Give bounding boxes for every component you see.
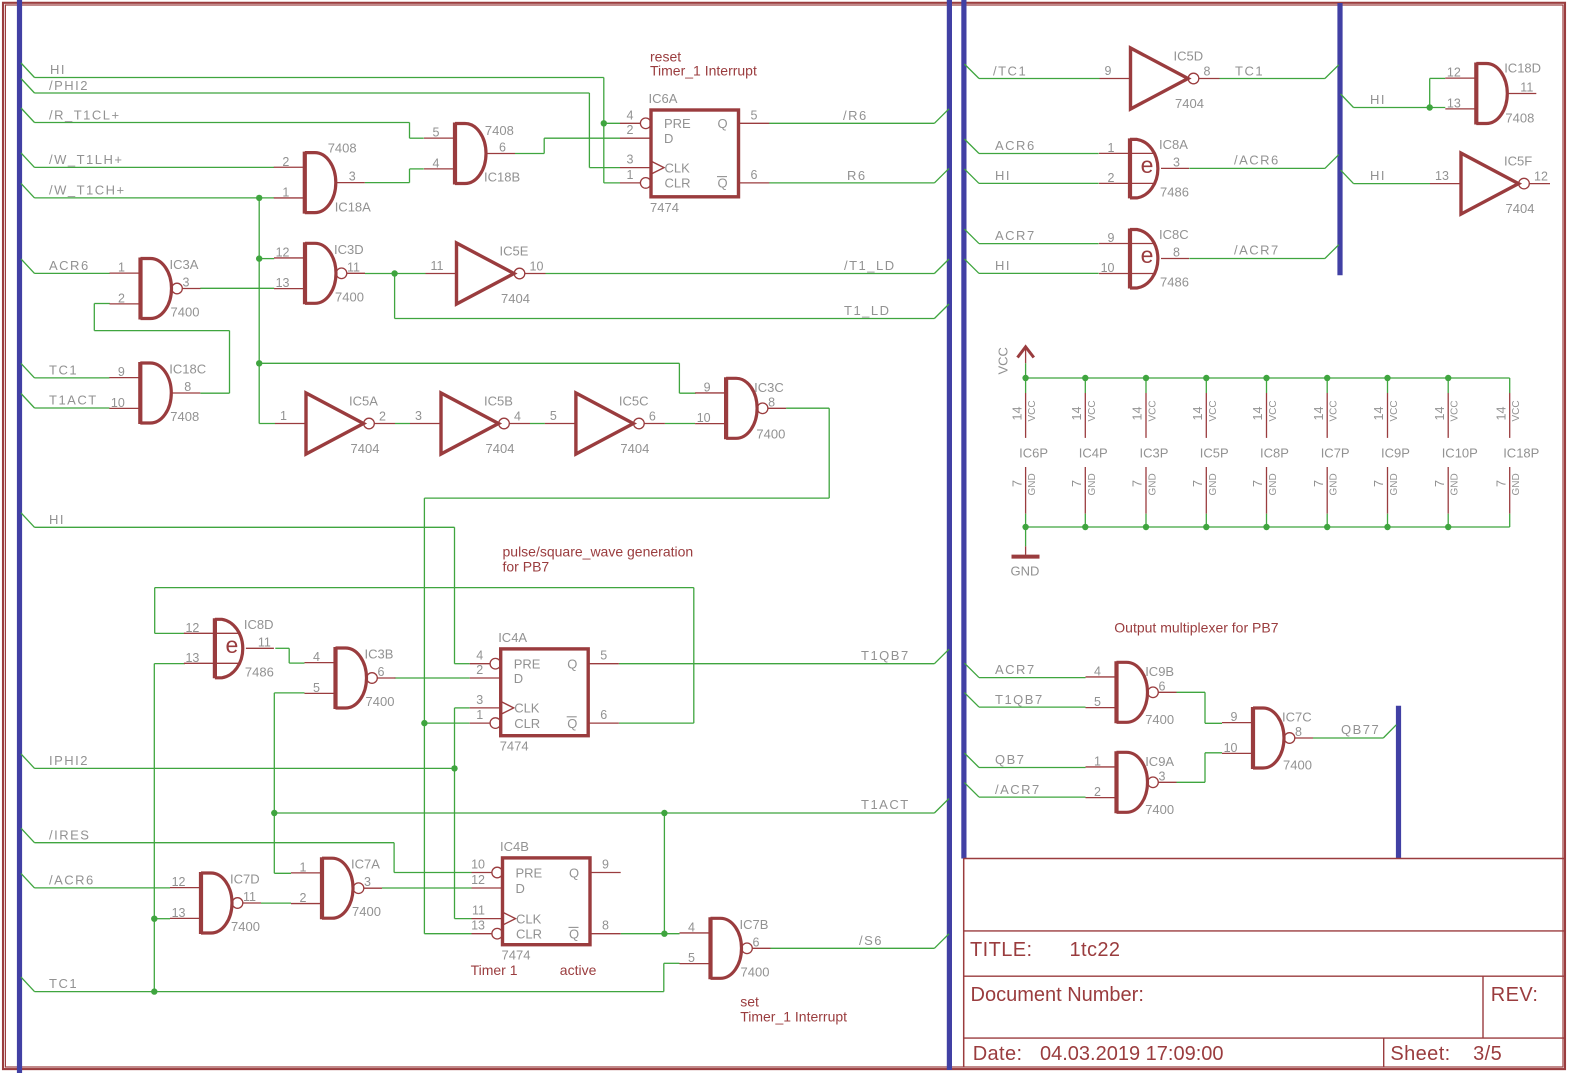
flip-flop IC6A 7474: [620, 91, 769, 215]
svg-text:/T1_LD: /T1_LD: [844, 258, 896, 273]
svg-text:12: 12: [1447, 66, 1461, 80]
svg-text:ACR6: ACR6: [995, 138, 1036, 153]
svg-text:7404: 7404: [1506, 201, 1535, 216]
nand IC3A 7400: [110, 257, 201, 320]
bus QB77: [1396, 706, 1401, 859]
svg-text:7400: 7400: [366, 694, 395, 709]
svg-text:7: 7: [1372, 480, 1386, 487]
svg-text:VCC: VCC: [1511, 400, 1522, 421]
wire IC7A out to IC4B D: [382, 887, 472, 889]
text set Timer_1 Interrupt: [740, 994, 847, 1025]
wire /ACR7 mux: [964, 782, 1085, 797]
nand IC3D 7400: [274, 242, 365, 304]
title block frame: [964, 859, 1566, 1068]
wire QB7 mux: [964, 752, 1085, 768]
svg-text:12: 12: [185, 621, 199, 635]
svg-text:4: 4: [313, 650, 320, 664]
svg-text:7404: 7404: [1175, 96, 1204, 111]
svg-text:GND: GND: [1011, 564, 1040, 579]
svg-text:8: 8: [768, 395, 775, 409]
wire IC7D out to IC7A pin2: [261, 902, 291, 904]
svg-text:/ACR7: /ACR7: [995, 782, 1041, 797]
svg-text:9: 9: [1105, 64, 1112, 78]
svg-text:IC5A: IC5A: [349, 394, 378, 409]
svg-text:7408: 7408: [1505, 111, 1534, 126]
svg-text:11: 11: [431, 259, 444, 273]
svg-text:1: 1: [1108, 141, 1115, 155]
wire /T1_LD: [546, 258, 950, 274]
svg-text:9: 9: [1231, 710, 1238, 724]
wire IPHI2 to FF clocks: [21, 708, 472, 919]
svg-text:Document Number:: Document Number:: [971, 984, 1144, 1006]
svg-text:e: e: [226, 632, 239, 658]
svg-text:/ACR6: /ACR6: [49, 873, 95, 888]
svg-text:/ACR7: /ACR7: [1234, 243, 1280, 258]
svg-text:9: 9: [118, 365, 125, 379]
wire ACR7 mux: [964, 662, 1085, 678]
svg-text:1: 1: [627, 168, 634, 182]
svg-text:13: 13: [471, 919, 485, 933]
svg-text:/R_T1CL+: /R_T1CL+: [49, 108, 121, 123]
svg-text:2: 2: [300, 891, 307, 905]
svg-text:IC9P: IC9P: [1381, 446, 1410, 461]
svg-text:4: 4: [688, 920, 695, 934]
wire /IRES to IC4B PRE: [21, 828, 472, 873]
svg-text:7486: 7486: [1160, 184, 1189, 199]
wire T1ACT net: [271, 693, 949, 937]
bus left edge: [17, 0, 22, 1073]
text Output multiplexer for PB7: [1114, 620, 1278, 636]
svg-text:7: 7: [1191, 480, 1205, 487]
wire HI IC8C: [964, 258, 1098, 273]
svg-text:6: 6: [600, 708, 607, 722]
svg-text:7404: 7404: [351, 441, 380, 456]
svg-text:IC3B: IC3B: [365, 647, 394, 662]
svg-text:3: 3: [476, 693, 483, 707]
text pulse/square_wave generation for PB7: [503, 544, 694, 575]
svg-text:8: 8: [184, 380, 191, 394]
wire /R_T1CL+: [21, 108, 424, 139]
svg-text:10: 10: [530, 260, 544, 274]
svg-text:GND: GND: [1208, 473, 1219, 495]
svg-text:12: 12: [276, 245, 290, 259]
svg-text:IC5C: IC5C: [619, 394, 649, 409]
svg-text:6: 6: [1159, 679, 1166, 693]
wire HI to IC18D: [1341, 78, 1446, 110]
svg-text:13: 13: [276, 276, 290, 290]
wire HI to IC5F: [1341, 168, 1430, 184]
svg-text:13: 13: [1447, 96, 1461, 110]
svg-text:VCC: VCC: [1389, 400, 1400, 421]
bus divider right: [961, 0, 966, 859]
flip-flop IC4B 7474: [471, 839, 621, 963]
svg-text:HI: HI: [50, 62, 66, 77]
svg-text:4: 4: [1094, 664, 1101, 678]
nand IC9A 7400: [1086, 751, 1177, 817]
svg-text:VCC: VCC: [1450, 400, 1461, 421]
svg-text:IC8C: IC8C: [1159, 227, 1189, 242]
svg-text:1: 1: [118, 261, 125, 275]
power pins IC9P: [1372, 375, 1410, 530]
svg-text:2: 2: [379, 410, 386, 424]
svg-text:PRE: PRE: [514, 657, 541, 672]
svg-text:6: 6: [499, 141, 506, 155]
svg-text:/W_T1LH+: /W_T1LH+: [49, 152, 124, 167]
svg-text:7404: 7404: [620, 441, 649, 456]
and IC18D 7408: [1445, 60, 1541, 125]
svg-text:GND: GND: [1148, 473, 1159, 495]
svg-text:PRE: PRE: [664, 116, 691, 131]
wire TC1 mid: [21, 363, 110, 378]
power pins IC4P: [1070, 375, 1108, 530]
svg-text:VCC: VCC: [1208, 400, 1219, 421]
wire IC9A out to IC7C pin10: [1177, 753, 1223, 783]
svg-text:QB7: QB7: [995, 752, 1026, 767]
svg-text:4: 4: [627, 108, 634, 122]
svg-text:7486: 7486: [1160, 275, 1189, 290]
svg-text:7400: 7400: [756, 427, 785, 442]
and IC18C 7408: [109, 362, 206, 425]
wire /ACR6: [21, 873, 170, 888]
wire T1_LD: [395, 303, 949, 319]
svg-text:IPHI2: IPHI2: [49, 753, 89, 768]
svg-text:e: e: [1141, 242, 1154, 268]
svg-text:GND: GND: [1450, 473, 1461, 495]
svg-text:11: 11: [347, 260, 360, 274]
svg-text:7400: 7400: [231, 919, 260, 934]
title block Document Number: [971, 984, 1144, 1006]
power pins IC3P: [1131, 375, 1169, 530]
inverter IC5A 7404: [275, 393, 395, 456]
svg-text:IC3A: IC3A: [170, 257, 199, 272]
bus divider left: [947, 0, 952, 1070]
svg-text:3: 3: [415, 409, 422, 423]
svg-text:12: 12: [1534, 170, 1548, 184]
svg-text:8: 8: [1295, 725, 1302, 739]
svg-text:VCC: VCC: [1268, 400, 1279, 421]
svg-text:Q: Q: [567, 657, 577, 672]
svg-text:T1QB7: T1QB7: [995, 692, 1044, 707]
svg-text:Timer 1: Timer 1: [471, 962, 518, 978]
svg-text:7408: 7408: [485, 123, 514, 138]
wire IC5A out to IC5B: [395, 423, 410, 425]
svg-text:IC3P: IC3P: [1140, 446, 1169, 461]
svg-text:HI: HI: [1370, 92, 1386, 107]
svg-text:IC5D: IC5D: [1174, 49, 1204, 64]
svg-text:14: 14: [1070, 407, 1084, 421]
svg-text:IC4B: IC4B: [500, 839, 529, 854]
svg-text:IC8P: IC8P: [1260, 446, 1289, 461]
VCC supply symbol: [996, 347, 1034, 378]
svg-text:2: 2: [476, 663, 483, 677]
svg-text:Timer_1 Interrupt: Timer_1 Interrupt: [740, 1009, 847, 1025]
inverter IC5F 7404: [1430, 153, 1550, 216]
svg-text:CLR: CLR: [665, 176, 691, 191]
svg-text:2: 2: [118, 291, 125, 305]
svg-text:13: 13: [1435, 169, 1449, 183]
wire /TC1: [964, 64, 1099, 79]
svg-text:7: 7: [1494, 480, 1508, 487]
svg-text:VCC: VCC: [1329, 400, 1340, 421]
svg-text:2: 2: [282, 155, 289, 169]
wire T1ACT mid: [21, 393, 110, 409]
svg-text:ACR7: ACR7: [995, 662, 1036, 677]
inverter IC5C 7404: [545, 393, 665, 456]
svg-text:/ACR6: /ACR6: [1234, 153, 1280, 168]
svg-text:7404: 7404: [486, 441, 515, 456]
svg-text:1: 1: [282, 185, 289, 199]
svg-text:4: 4: [476, 649, 483, 663]
svg-text:1tc22: 1tc22: [1070, 939, 1121, 961]
wire /W_T1CH+ with vertical branch: [21, 183, 696, 424]
svg-text:Q: Q: [718, 116, 728, 131]
wire IC18B out to IC6A D: [515, 138, 620, 153]
svg-text:11: 11: [243, 890, 256, 904]
flip-flop IC4A 7474: [470, 630, 619, 754]
wire IC18C out to IC3A pin2: [94, 304, 229, 394]
svg-text:IC4A: IC4A: [498, 630, 527, 645]
svg-text:HI: HI: [1370, 168, 1386, 183]
wire IC3A out to IC3D pin13: [200, 287, 274, 289]
nand IC9B 7400: [1086, 661, 1177, 727]
svg-text:/R6: /R6: [843, 108, 868, 123]
wire QB77: [1313, 722, 1396, 738]
svg-text:TC1: TC1: [1235, 64, 1264, 79]
wire ACR7 right: [964, 228, 1098, 244]
svg-text:13: 13: [185, 651, 199, 665]
svg-text:9: 9: [602, 858, 609, 872]
svg-text:IC7A: IC7A: [351, 857, 380, 872]
svg-text:7: 7: [1312, 480, 1326, 487]
title block Sheet: [1390, 1043, 1502, 1065]
svg-text:IC18D: IC18D: [1504, 60, 1541, 75]
svg-text:CLK: CLK: [516, 911, 542, 926]
svg-text:active: active: [560, 962, 597, 978]
svg-text:7408: 7408: [328, 141, 357, 156]
svg-text:7400: 7400: [741, 964, 770, 979]
svg-text:3: 3: [183, 276, 190, 290]
svg-text:IC5E: IC5E: [500, 244, 529, 259]
svg-text:04.03.2019 17:09:00: 04.03.2019 17:09:00: [1040, 1043, 1224, 1065]
svg-text:7: 7: [1010, 480, 1024, 487]
svg-text:ACR6: ACR6: [49, 258, 90, 273]
svg-text:Timer_1 Interrupt: Timer_1 Interrupt: [650, 63, 757, 79]
svg-text:/TC1: /TC1: [993, 64, 1027, 79]
svg-text:5: 5: [751, 108, 758, 122]
wire /W_T1LH+: [21, 152, 274, 167]
svg-text:/IRES: /IRES: [49, 828, 90, 843]
svg-text:9: 9: [1108, 231, 1115, 245]
xor IC8D 7486: [184, 617, 274, 680]
svg-text:7400: 7400: [1145, 802, 1174, 817]
svg-text:IC3D: IC3D: [334, 242, 364, 257]
svg-text:6: 6: [751, 168, 758, 182]
svg-text:10: 10: [111, 396, 125, 410]
nand IC7C 7400: [1222, 707, 1313, 773]
svg-text:TC1: TC1: [49, 363, 78, 378]
svg-text:IC7B: IC7B: [740, 917, 769, 932]
wire /ACR6 out: [1189, 153, 1339, 169]
title block Date: [973, 1043, 1224, 1065]
svg-text:IC18C: IC18C: [169, 362, 206, 377]
svg-text:HI: HI: [995, 258, 1011, 273]
svg-text:VCC: VCC: [1087, 400, 1098, 421]
svg-text:Output multiplexer for PB7: Output multiplexer for PB7: [1114, 620, 1278, 636]
svg-text:6: 6: [753, 935, 760, 949]
svg-text:14: 14: [1372, 407, 1386, 421]
svg-text:8: 8: [1204, 65, 1211, 79]
svg-text:7: 7: [1251, 480, 1265, 487]
power pins IC6P: [1010, 375, 1048, 530]
nand IC7B 7400: [680, 917, 771, 980]
svg-text:set: set: [740, 994, 759, 1010]
GND rail: [1026, 526, 1510, 528]
VCC rail: [1026, 377, 1510, 379]
power pins IC10P: [1433, 375, 1478, 530]
svg-text:pulse/square_wave generation: pulse/square_wave generation: [503, 544, 694, 560]
svg-text:7474: 7474: [502, 948, 531, 963]
svg-text:IC18A: IC18A: [335, 200, 371, 215]
svg-text:5: 5: [313, 681, 320, 695]
inverter IC5B 7404: [410, 393, 530, 456]
svg-text:7400: 7400: [1283, 758, 1312, 773]
svg-text:7400: 7400: [335, 289, 364, 304]
wire /S6: [771, 933, 950, 948]
svg-text:TC1: TC1: [49, 976, 78, 991]
svg-text:2: 2: [1094, 785, 1101, 799]
svg-text:14: 14: [1191, 407, 1205, 421]
svg-text:IC4P: IC4P: [1079, 446, 1108, 461]
svg-text:IC5P: IC5P: [1200, 446, 1229, 461]
svg-text:7400: 7400: [352, 904, 381, 919]
svg-text:1: 1: [300, 860, 307, 874]
svg-text:3: 3: [1173, 155, 1180, 169]
svg-text:VCC: VCC: [1027, 400, 1038, 421]
svg-text:e: e: [1141, 152, 1154, 178]
svg-text:1: 1: [476, 708, 483, 722]
svg-text:10: 10: [1101, 261, 1115, 275]
inverter IC5D 7404: [1100, 48, 1220, 111]
svg-text:IC5F: IC5F: [1504, 154, 1532, 169]
svg-text:7400: 7400: [171, 305, 200, 320]
nand IC7A 7400: [291, 857, 382, 920]
power pins IC18P: [1494, 378, 1539, 527]
svg-text:IC7C: IC7C: [1282, 710, 1312, 725]
svg-text:5: 5: [688, 951, 695, 965]
svg-text:7: 7: [1070, 480, 1084, 487]
wire IC9B out to IC7C pin9: [1177, 692, 1223, 723]
svg-text:D: D: [664, 131, 673, 146]
wire HI IC8A: [964, 168, 1098, 183]
svg-text:14: 14: [1312, 407, 1326, 421]
svg-text:5: 5: [600, 649, 607, 663]
wire IC5B out to IC5C: [530, 423, 545, 425]
svg-text:1: 1: [1094, 754, 1101, 768]
svg-text:VCC: VCC: [996, 347, 1011, 374]
xor IC8C 7486: [1099, 227, 1189, 290]
svg-text:7400: 7400: [1145, 712, 1174, 727]
svg-text:/S6: /S6: [859, 933, 883, 948]
svg-text:14: 14: [1494, 407, 1508, 421]
svg-text:R6: R6: [847, 168, 867, 183]
svg-text:3: 3: [364, 875, 371, 889]
svg-text:5: 5: [1094, 695, 1101, 709]
svg-text:for PB7: for PB7: [503, 559, 550, 575]
svg-text:IC8A: IC8A: [1159, 137, 1188, 152]
wire IC3B out to IC4A D: [394, 677, 469, 679]
power pins IC7P: [1312, 375, 1350, 530]
svg-text:12: 12: [172, 875, 186, 889]
wire HI mid to IC4A PRE: [21, 512, 470, 664]
wire IC3C out to FF clears: [421, 408, 829, 934]
svg-text:HI: HI: [49, 512, 65, 527]
svg-text:Q: Q: [567, 716, 577, 731]
svg-text:2: 2: [627, 123, 634, 137]
wire IC4A QB feedback to IC8D pin12: [155, 588, 694, 724]
svg-text:IC5B: IC5B: [484, 394, 513, 409]
and IC18B 7408: [424, 123, 520, 185]
title block REV: [1491, 984, 1539, 1006]
inverter IC5E 7404: [426, 243, 546, 306]
svg-text:IC9A: IC9A: [1145, 754, 1174, 769]
wire ACR6: [21, 258, 110, 273]
svg-text:GND: GND: [1511, 473, 1522, 495]
svg-text:T1_LD: T1_LD: [844, 303, 891, 318]
svg-text:1: 1: [280, 409, 287, 423]
wire /ACR7 out: [1189, 243, 1339, 259]
svg-text:8: 8: [602, 919, 609, 933]
svg-text:10: 10: [471, 858, 485, 872]
wire IC4B QB to IC7B pin4: [621, 933, 680, 935]
power pins IC8P: [1251, 375, 1289, 530]
power pins IC5P: [1191, 375, 1229, 530]
nand IC3B 7400: [305, 647, 396, 710]
svg-text:D: D: [516, 881, 525, 896]
svg-text:Sheet:: Sheet:: [1390, 1043, 1450, 1065]
wire T1QB7 mux: [964, 692, 1085, 707]
nand IC7D 7400: [170, 872, 261, 935]
svg-text:11: 11: [258, 635, 271, 649]
svg-text:14: 14: [1433, 407, 1447, 421]
svg-text:Q: Q: [718, 176, 728, 191]
wire TC1 out: [1220, 64, 1339, 79]
svg-text:4: 4: [514, 410, 521, 424]
svg-text:REV:: REV:: [1491, 984, 1539, 1006]
svg-text:VCC: VCC: [1148, 400, 1159, 421]
wire IC3D out to IC5E with T1_LD branch: [365, 270, 426, 318]
wire R6: [769, 168, 949, 183]
svg-text:/W_T1CH+: /W_T1CH+: [49, 183, 126, 198]
text reset Timer_1 Interrupt: [650, 49, 757, 79]
svg-text:10: 10: [1224, 741, 1238, 755]
svg-text:7: 7: [1433, 480, 1447, 487]
svg-text:5: 5: [433, 126, 440, 140]
svg-text:7: 7: [1131, 480, 1145, 487]
svg-text:11: 11: [472, 904, 485, 918]
wire T1QB7: [619, 648, 949, 664]
svg-text:12: 12: [471, 873, 485, 887]
svg-text:/PHI2: /PHI2: [49, 78, 89, 93]
svg-text:3/5: 3/5: [1473, 1043, 1502, 1065]
svg-text:CLR: CLR: [516, 927, 542, 942]
svg-text:T1ACT: T1ACT: [49, 393, 98, 408]
svg-text:6: 6: [378, 665, 385, 679]
svg-text:3: 3: [349, 170, 356, 184]
svg-text:CLK: CLK: [665, 160, 691, 175]
svg-text:IC6P: IC6P: [1019, 446, 1048, 461]
svg-text:3: 3: [1159, 769, 1166, 783]
svg-text:CLK: CLK: [514, 701, 540, 716]
